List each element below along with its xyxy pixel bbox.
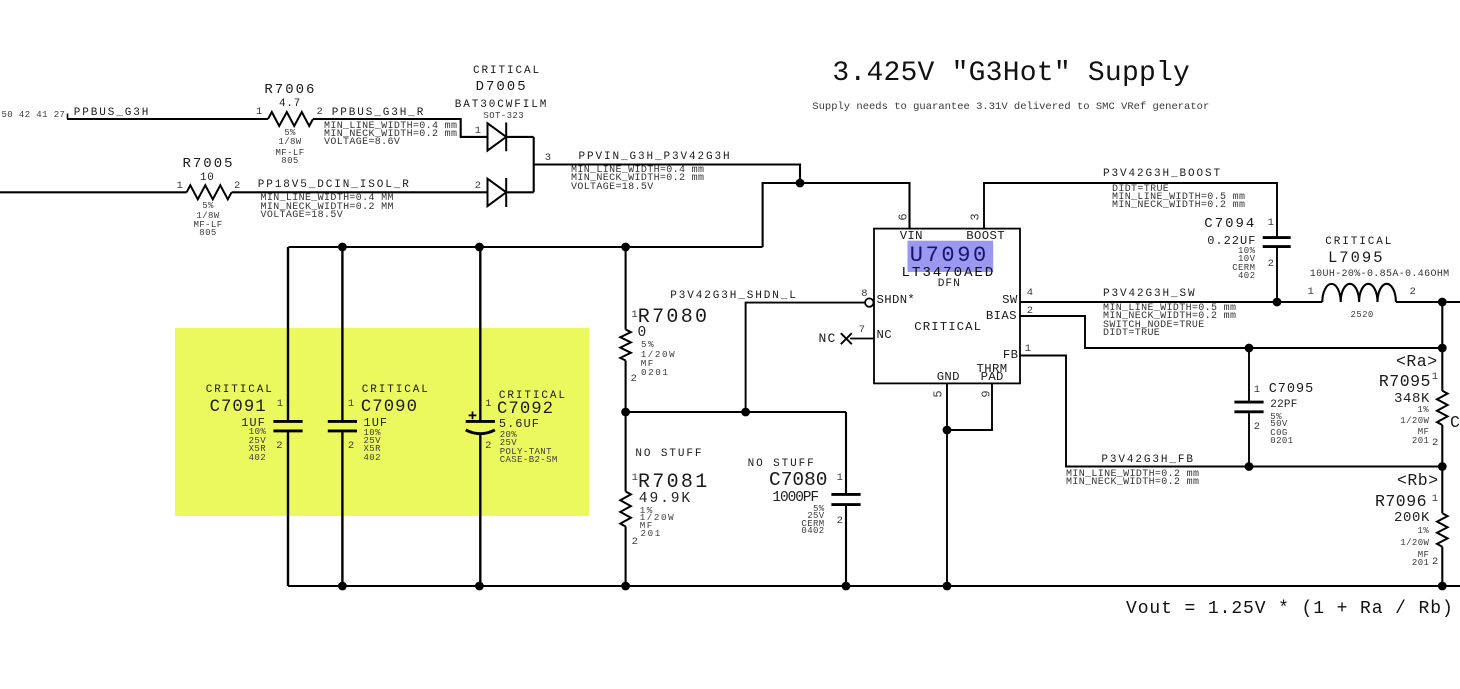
wire R7096 bottom lead	[1441, 547, 1443, 586]
capacitor C7080 plates	[831, 494, 860, 504]
page refs	[2, 111, 66, 120]
net label P3V42G3H_SW	[1103, 289, 1197, 300]
net label P3V42G3H_BOOST	[1103, 169, 1222, 180]
wire C7090 top lead	[341, 247, 343, 420]
wire P3V42G3H_BIAS	[1020, 316, 1442, 348]
U7090 pin name VIN	[900, 230, 923, 242]
diode D7005 refdes	[476, 80, 528, 94]
C7092 tolerance	[500, 431, 517, 440]
D7005 pin 2	[475, 181, 481, 192]
PPVIN prop line2	[571, 174, 704, 184]
capacitor C7092 plus sign	[469, 412, 477, 420]
L7095 package	[1351, 311, 1374, 320]
net label PPBUS_G3H	[74, 108, 151, 119]
FB prop line2	[1066, 478, 1199, 488]
C7095 value	[1270, 400, 1297, 411]
R7096 value	[1394, 511, 1430, 525]
U7090 pin 4	[1027, 288, 1033, 299]
C7080 voltage	[807, 512, 824, 521]
resistor R7096 refdes	[1375, 494, 1427, 511]
R7005 package	[199, 229, 216, 238]
junction C7095 FB	[1245, 462, 1254, 471]
PPVIN prop line3	[571, 183, 654, 193]
highlight yellow critical-caps zone	[175, 328, 589, 516]
C7095 package	[1270, 437, 1293, 446]
R7095 pin 2 sub	[1432, 438, 1438, 449]
R7005 type	[194, 221, 223, 230]
R7080 pin 2 sub	[631, 374, 637, 385]
junction C7094 SW	[1273, 298, 1282, 307]
resistor R7095 body	[1437, 391, 1448, 425]
wire NC pin	[850, 338, 874, 340]
C7091 value	[241, 417, 266, 429]
U7090 pin 8	[861, 289, 867, 300]
junction R7096 gnd	[1438, 582, 1447, 591]
Vout formula	[1126, 600, 1454, 618]
R7080 power	[641, 350, 677, 359]
resistor R7006 body	[268, 112, 313, 126]
R7005 prop line1	[261, 194, 394, 204]
wire PPVIN_G3H_P3V42G3H	[534, 165, 800, 184]
R7081 package	[641, 529, 662, 538]
C7090 pin 2	[348, 441, 354, 452]
U7090 pin name BOOST	[966, 230, 1005, 242]
junction GND THRM	[943, 426, 952, 435]
R7081 pin 2 sub	[632, 537, 638, 548]
C7091 pin 2	[276, 441, 282, 452]
junction R7081 gnd	[621, 582, 630, 591]
wire PPBUS_G3H_R	[313, 119, 488, 137]
U7090 pin 1	[1025, 344, 1031, 355]
U7090 pin name THRM	[977, 363, 1008, 375]
capacitor C7095 plates	[1234, 402, 1263, 412]
net label PP18V5_DCIN_ISOL_R	[258, 180, 411, 191]
net stub C (clipped)	[1450, 415, 1460, 432]
op-amp/regulator U7090 body	[874, 229, 1020, 384]
wire bus to caps	[289, 246, 763, 248]
R7096 type	[1418, 551, 1430, 560]
C7080 value	[772, 491, 818, 506]
R7095 value	[1394, 392, 1430, 406]
capacitor C7092 plates	[466, 421, 495, 433]
C7091 voltage	[249, 437, 266, 446]
C7090 type	[364, 445, 381, 454]
resistor R7096 body	[1437, 513, 1448, 546]
R7080 package	[641, 368, 669, 377]
U7090 pin name GND	[937, 371, 960, 383]
net label P3V42G3H_FB	[1101, 455, 1195, 466]
C7092 voltage	[500, 439, 517, 448]
C7090 tolerance	[364, 429, 381, 438]
junction C7080 gnd	[842, 582, 851, 591]
wire BOOST rail	[984, 183, 1277, 236]
capacitor C7090 refdes	[361, 399, 418, 416]
capacitor C7094 plates	[1263, 238, 1291, 247]
node Rb	[1397, 473, 1439, 490]
wire P3V42G3H_SW	[1020, 301, 1322, 303]
net label PPVIN_G3H_P3V42G3H	[579, 152, 732, 163]
pin bubble SHDN*	[865, 298, 873, 306]
C7080 type	[801, 520, 824, 529]
FB prop line1	[1066, 470, 1199, 480]
C7092 pin 1	[485, 399, 491, 410]
C7095 voltage	[1270, 420, 1287, 429]
C7095 pin 1	[1254, 385, 1260, 396]
junction C7095 BIAS	[1245, 344, 1254, 353]
L7095 pin 1	[1308, 287, 1314, 298]
U7090 pin 9	[981, 390, 993, 397]
R7006 pin 2	[317, 107, 323, 118]
junction SW right rail	[1438, 298, 1447, 307]
C7095 pin 2	[1254, 422, 1260, 433]
highlight U7090	[908, 241, 994, 272]
junction C7090 gnd	[338, 582, 347, 591]
U7090 pin name SHDN*	[877, 294, 916, 306]
wire P3V42G3H_SHDN_L	[746, 303, 866, 412]
C7094 value	[1207, 235, 1256, 247]
wire D7005 common cathode	[533, 137, 535, 192]
junction BIAS right rail	[1438, 344, 1447, 353]
wire U7090 GND pin	[946, 383, 948, 586]
wire R7081 bottom lead	[625, 527, 627, 587]
U7090 pin 6	[897, 213, 909, 220]
wire VIN rail	[763, 183, 910, 247]
D7005 pin 3	[545, 153, 551, 164]
U7090 pin name BIAS	[986, 310, 1017, 322]
C7092 critical flag	[499, 391, 567, 402]
BOOST prop line3	[1112, 201, 1245, 211]
R7081 pin 1 sup	[632, 473, 638, 484]
net stub tick PPBUS_G3H	[67, 114, 69, 120]
R7081 power	[640, 513, 676, 522]
wire C7095 bottom lead	[1248, 413, 1250, 466]
R7095 tolerance	[1417, 406, 1429, 415]
R7006 package	[281, 157, 298, 166]
wire L7095 pin2 to output	[1396, 301, 1460, 303]
U7090 pin name PAD	[981, 371, 1004, 383]
wire ground bus	[288, 585, 1460, 587]
R7096 tolerance	[1417, 527, 1429, 536]
R7005 power	[196, 212, 219, 221]
C7090 voltage	[364, 437, 381, 446]
U7090 pin 7	[859, 325, 865, 336]
U7090 critical flag	[914, 321, 982, 333]
C7091 tolerance	[249, 428, 266, 437]
IC U7090 refdes	[910, 245, 989, 267]
wire PPBUS_G3H	[67, 118, 268, 120]
C7090 value	[364, 417, 389, 429]
R7095 package	[1412, 437, 1429, 446]
capacitor C7094 refdes	[1204, 217, 1256, 231]
wire U7090 THRM pad pin	[947, 383, 992, 430]
U7090 pin name NC	[877, 329, 892, 341]
wire R7080 bottom lead	[625, 361, 627, 413]
SW prop line2	[1103, 312, 1236, 322]
C7090 package	[364, 454, 381, 463]
C7092 pin 2	[485, 441, 491, 452]
D7005 part number	[455, 100, 549, 111]
R7006 value	[279, 99, 301, 110]
capacitor C7091 plates	[273, 421, 302, 431]
L7095 value	[1310, 270, 1450, 280]
C7094 pin 2	[1268, 259, 1274, 270]
C7095 type	[1270, 429, 1287, 438]
wire C7091 top lead	[287, 247, 289, 420]
wire C7092 bottom lead	[479, 434, 481, 587]
net label P3V42G3H_SHDN_L	[670, 291, 798, 302]
inductor L7095 body	[1322, 284, 1396, 302]
C7094 tolerance	[1238, 247, 1255, 256]
junction R7080 mid bus	[621, 408, 630, 417]
wire C7092 top lead	[479, 247, 481, 420]
U7090 pin name FB	[1003, 349, 1018, 361]
C7095 tolerance	[1270, 413, 1282, 422]
R7005 prop line2	[261, 203, 394, 213]
wire P3V42G3H_FB	[1020, 356, 1442, 467]
U7090 pin 2	[1027, 306, 1033, 317]
C7091 type	[249, 445, 266, 454]
no-connect X on NC pin	[841, 333, 852, 344]
no-connect NC label	[819, 332, 837, 345]
junction U7090 gnd	[943, 582, 952, 591]
R7005 tolerance	[202, 202, 214, 211]
C7080 pin 1	[837, 473, 843, 484]
U7090 pin 5	[932, 390, 944, 397]
inductor L7095 refdes	[1328, 251, 1385, 267]
R7006 tolerance	[284, 129, 296, 138]
R7095 power	[1400, 417, 1429, 426]
junction C7090 top	[338, 243, 347, 252]
capacitor C7090 plates	[328, 421, 357, 431]
sheet subtitle	[812, 102, 1209, 113]
C7094 package	[1238, 272, 1255, 281]
C7091 critical flag	[206, 385, 274, 396]
R7081 type	[640, 521, 654, 530]
resistor R7080 body	[620, 330, 631, 361]
SW prop line3	[1103, 321, 1205, 331]
junction C7092 gnd	[475, 582, 484, 591]
resistor R7005 refdes	[183, 157, 235, 171]
C7080 package	[801, 527, 824, 536]
capacitor C7091 refdes	[210, 399, 267, 416]
resistor R7005 body	[187, 185, 232, 199]
wire PP18V5 input	[0, 191, 187, 193]
wire C7095 top lead	[1248, 348, 1250, 401]
R7096 pin 1 sup	[1432, 494, 1438, 505]
U7090 pin name SW	[1002, 294, 1017, 306]
junction FB right rail	[1438, 462, 1447, 471]
C7092 package	[500, 456, 558, 465]
junction PPVIN at VIN rail	[796, 179, 805, 188]
R7006 prop line2	[324, 130, 457, 140]
D7005 pin 1	[475, 126, 481, 137]
wire C7091 bottom lead	[287, 432, 289, 586]
wire R7081 top lead	[625, 412, 627, 492]
C7092 value	[499, 418, 540, 430]
R7080 value	[638, 326, 649, 341]
U7090 part number	[902, 266, 996, 280]
SW prop line4	[1103, 329, 1160, 339]
PPVIN prop line1	[571, 166, 704, 176]
C7094 type	[1232, 264, 1255, 273]
U7090 pin 3	[970, 213, 982, 220]
diode D7005 top half	[488, 123, 507, 152]
wire right rail upper	[1441, 302, 1443, 391]
resistor R7080 refdes	[638, 308, 710, 328]
capacitor C7095 refdes	[1269, 383, 1315, 397]
wire R7080 top lead	[625, 247, 627, 330]
U7090 package DFN	[938, 279, 961, 290]
BOOST prop line1	[1112, 185, 1169, 195]
R7006 prop line1	[324, 122, 457, 132]
sheet title	[832, 60, 1190, 88]
resistor R7081 refdes	[638, 473, 710, 493]
junction C7092 top	[475, 243, 484, 252]
C7091 pin 1	[277, 399, 283, 410]
C7092 type	[500, 448, 552, 457]
R7096 package	[1412, 559, 1429, 568]
wire C7080 top lead	[845, 412, 847, 493]
R7005 pin 1	[177, 181, 183, 192]
wire C7080 bottom lead	[845, 506, 847, 586]
L7095 pin 2	[1410, 287, 1416, 298]
R7080 tolerance	[641, 340, 655, 349]
R7006 power	[278, 138, 301, 147]
R7006 type	[276, 149, 305, 158]
resistor R7081 body	[620, 492, 631, 527]
BOOST prop line2	[1112, 193, 1245, 203]
R7096 power	[1400, 539, 1429, 548]
wire D7005 pin1 to common cathode	[506, 136, 534, 138]
R7095 pin 1 sup	[1432, 372, 1438, 383]
R7006 prop line3	[324, 138, 400, 148]
wire D7005 pin2 to common cathode	[506, 191, 534, 193]
junction R7080 top	[621, 243, 630, 252]
C7080 pin 2	[837, 516, 843, 527]
L7095 critical flag	[1325, 237, 1393, 248]
C7090 critical flag	[362, 385, 430, 396]
C7094 voltage	[1238, 255, 1255, 264]
R7080 type	[641, 359, 655, 368]
R7005 value	[200, 173, 215, 184]
wire C7090 bottom lead	[341, 432, 343, 586]
node Ra	[1396, 354, 1438, 371]
C7094 pin 1	[1268, 218, 1274, 229]
SW prop line1	[1103, 304, 1236, 314]
capacitor C7092 refdes	[497, 401, 554, 418]
D7005 critical flag	[473, 66, 541, 77]
R7096 pin 2 sub	[1432, 557, 1438, 568]
wire PP18V5_DCIN_ISOL_R	[232, 191, 488, 193]
R7080 pin 1 sup	[631, 310, 637, 321]
capacitor C7080 refdes	[769, 471, 828, 491]
junction SHDN mid bus	[741, 408, 750, 417]
R7006 pin 1	[256, 107, 262, 118]
R7081 value	[639, 492, 692, 507]
D7005 package	[483, 112, 524, 121]
wire mid bus	[626, 411, 846, 413]
resistor R7006 refdes	[264, 83, 316, 97]
R7081 no stuff flag	[635, 449, 703, 460]
R7081 tolerance	[640, 506, 654, 515]
C7080 no stuff flag	[748, 459, 816, 470]
diode D7005 bottom half	[488, 178, 507, 207]
R7005 prop line3	[261, 211, 344, 221]
C7080 tolerance	[813, 505, 825, 514]
net label PPBUS_G3H_R	[332, 108, 426, 119]
C7090 pin 1	[348, 399, 354, 410]
R7005 pin 2	[234, 181, 240, 192]
wire R7095 bottom lead	[1441, 425, 1443, 513]
wire C7094 bottom lead	[1276, 248, 1278, 302]
resistor R7095 refdes	[1379, 374, 1431, 391]
C7091 package	[249, 454, 266, 463]
R7095 type	[1418, 428, 1430, 437]
